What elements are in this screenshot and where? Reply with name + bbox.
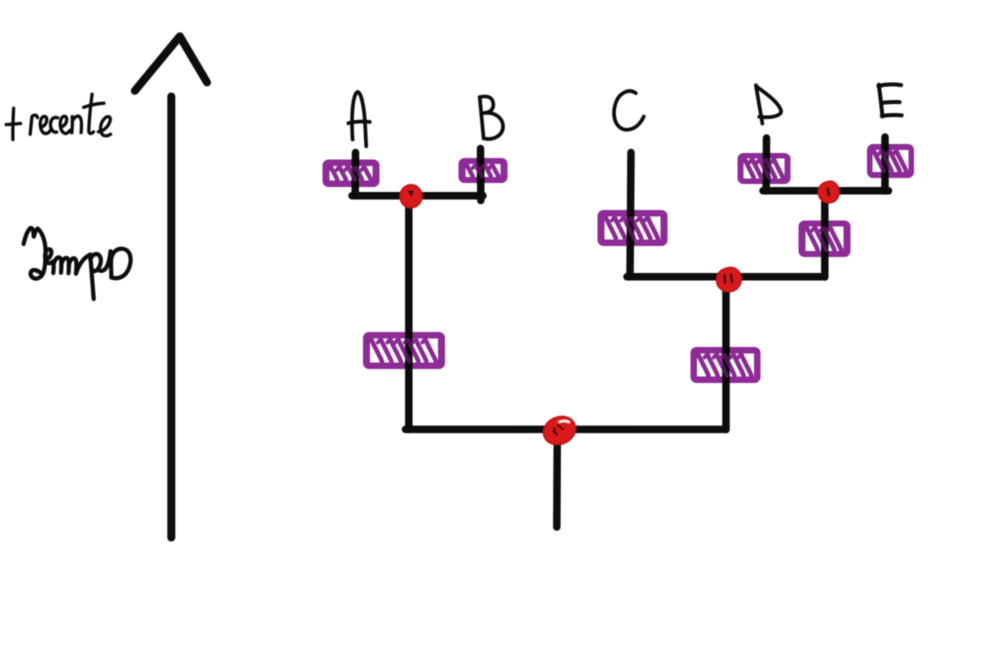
branch stem CDE	[722, 277, 730, 430]
label "Tempo"	[24, 228, 131, 299]
node A+B red dot	[399, 183, 424, 209]
branch C	[630, 153, 631, 278]
branch stem DE	[821, 191, 829, 277]
node C+DE red dot	[716, 267, 741, 291]
character box on tip D	[738, 153, 791, 184]
character box on branch DE	[799, 221, 851, 258]
taxon label A	[348, 92, 370, 146]
root node red dot	[539, 412, 580, 450]
connector C-DE	[627, 273, 825, 281]
character box on branch CDE	[691, 347, 761, 383]
branch tip A	[351, 153, 359, 196]
hatch marks tip B	[464, 166, 498, 176]
label "+ recente"	[6, 94, 110, 139]
character box on tip A	[323, 160, 380, 188]
hatch marks tip D	[742, 160, 783, 177]
hatch marks branch AB	[368, 340, 436, 361]
bottom connector AB-CDE	[406, 426, 727, 434]
root branch	[553, 430, 561, 527]
hatch marks branch CDE	[695, 355, 751, 375]
time arrow head	[135, 36, 207, 91]
connector A-B	[352, 192, 483, 200]
line show-through overlays on boxes	[352, 160, 360, 188]
branch stem AB	[405, 196, 413, 430]
hatch marks branch DE	[804, 228, 841, 250]
taxon label B	[480, 96, 503, 139]
character box on tip E	[867, 144, 914, 178]
taxon label D	[756, 85, 781, 123]
character box on tip B	[459, 158, 508, 183]
branch tip E	[881, 137, 889, 191]
character box on branch AB	[363, 332, 445, 369]
hatch marks tip E	[871, 152, 906, 171]
branch tip D	[762, 138, 770, 191]
connector D-E	[763, 187, 889, 195]
time arrow shaft	[167, 97, 175, 538]
character box on branch C	[598, 210, 668, 246]
node D+E red dot	[818, 181, 839, 203]
hatch marks tip A	[328, 168, 371, 180]
taxon label E	[878, 85, 901, 117]
hatch marks branch C	[603, 218, 658, 238]
taxon label C	[614, 91, 644, 130]
branch tip B	[477, 149, 485, 201]
